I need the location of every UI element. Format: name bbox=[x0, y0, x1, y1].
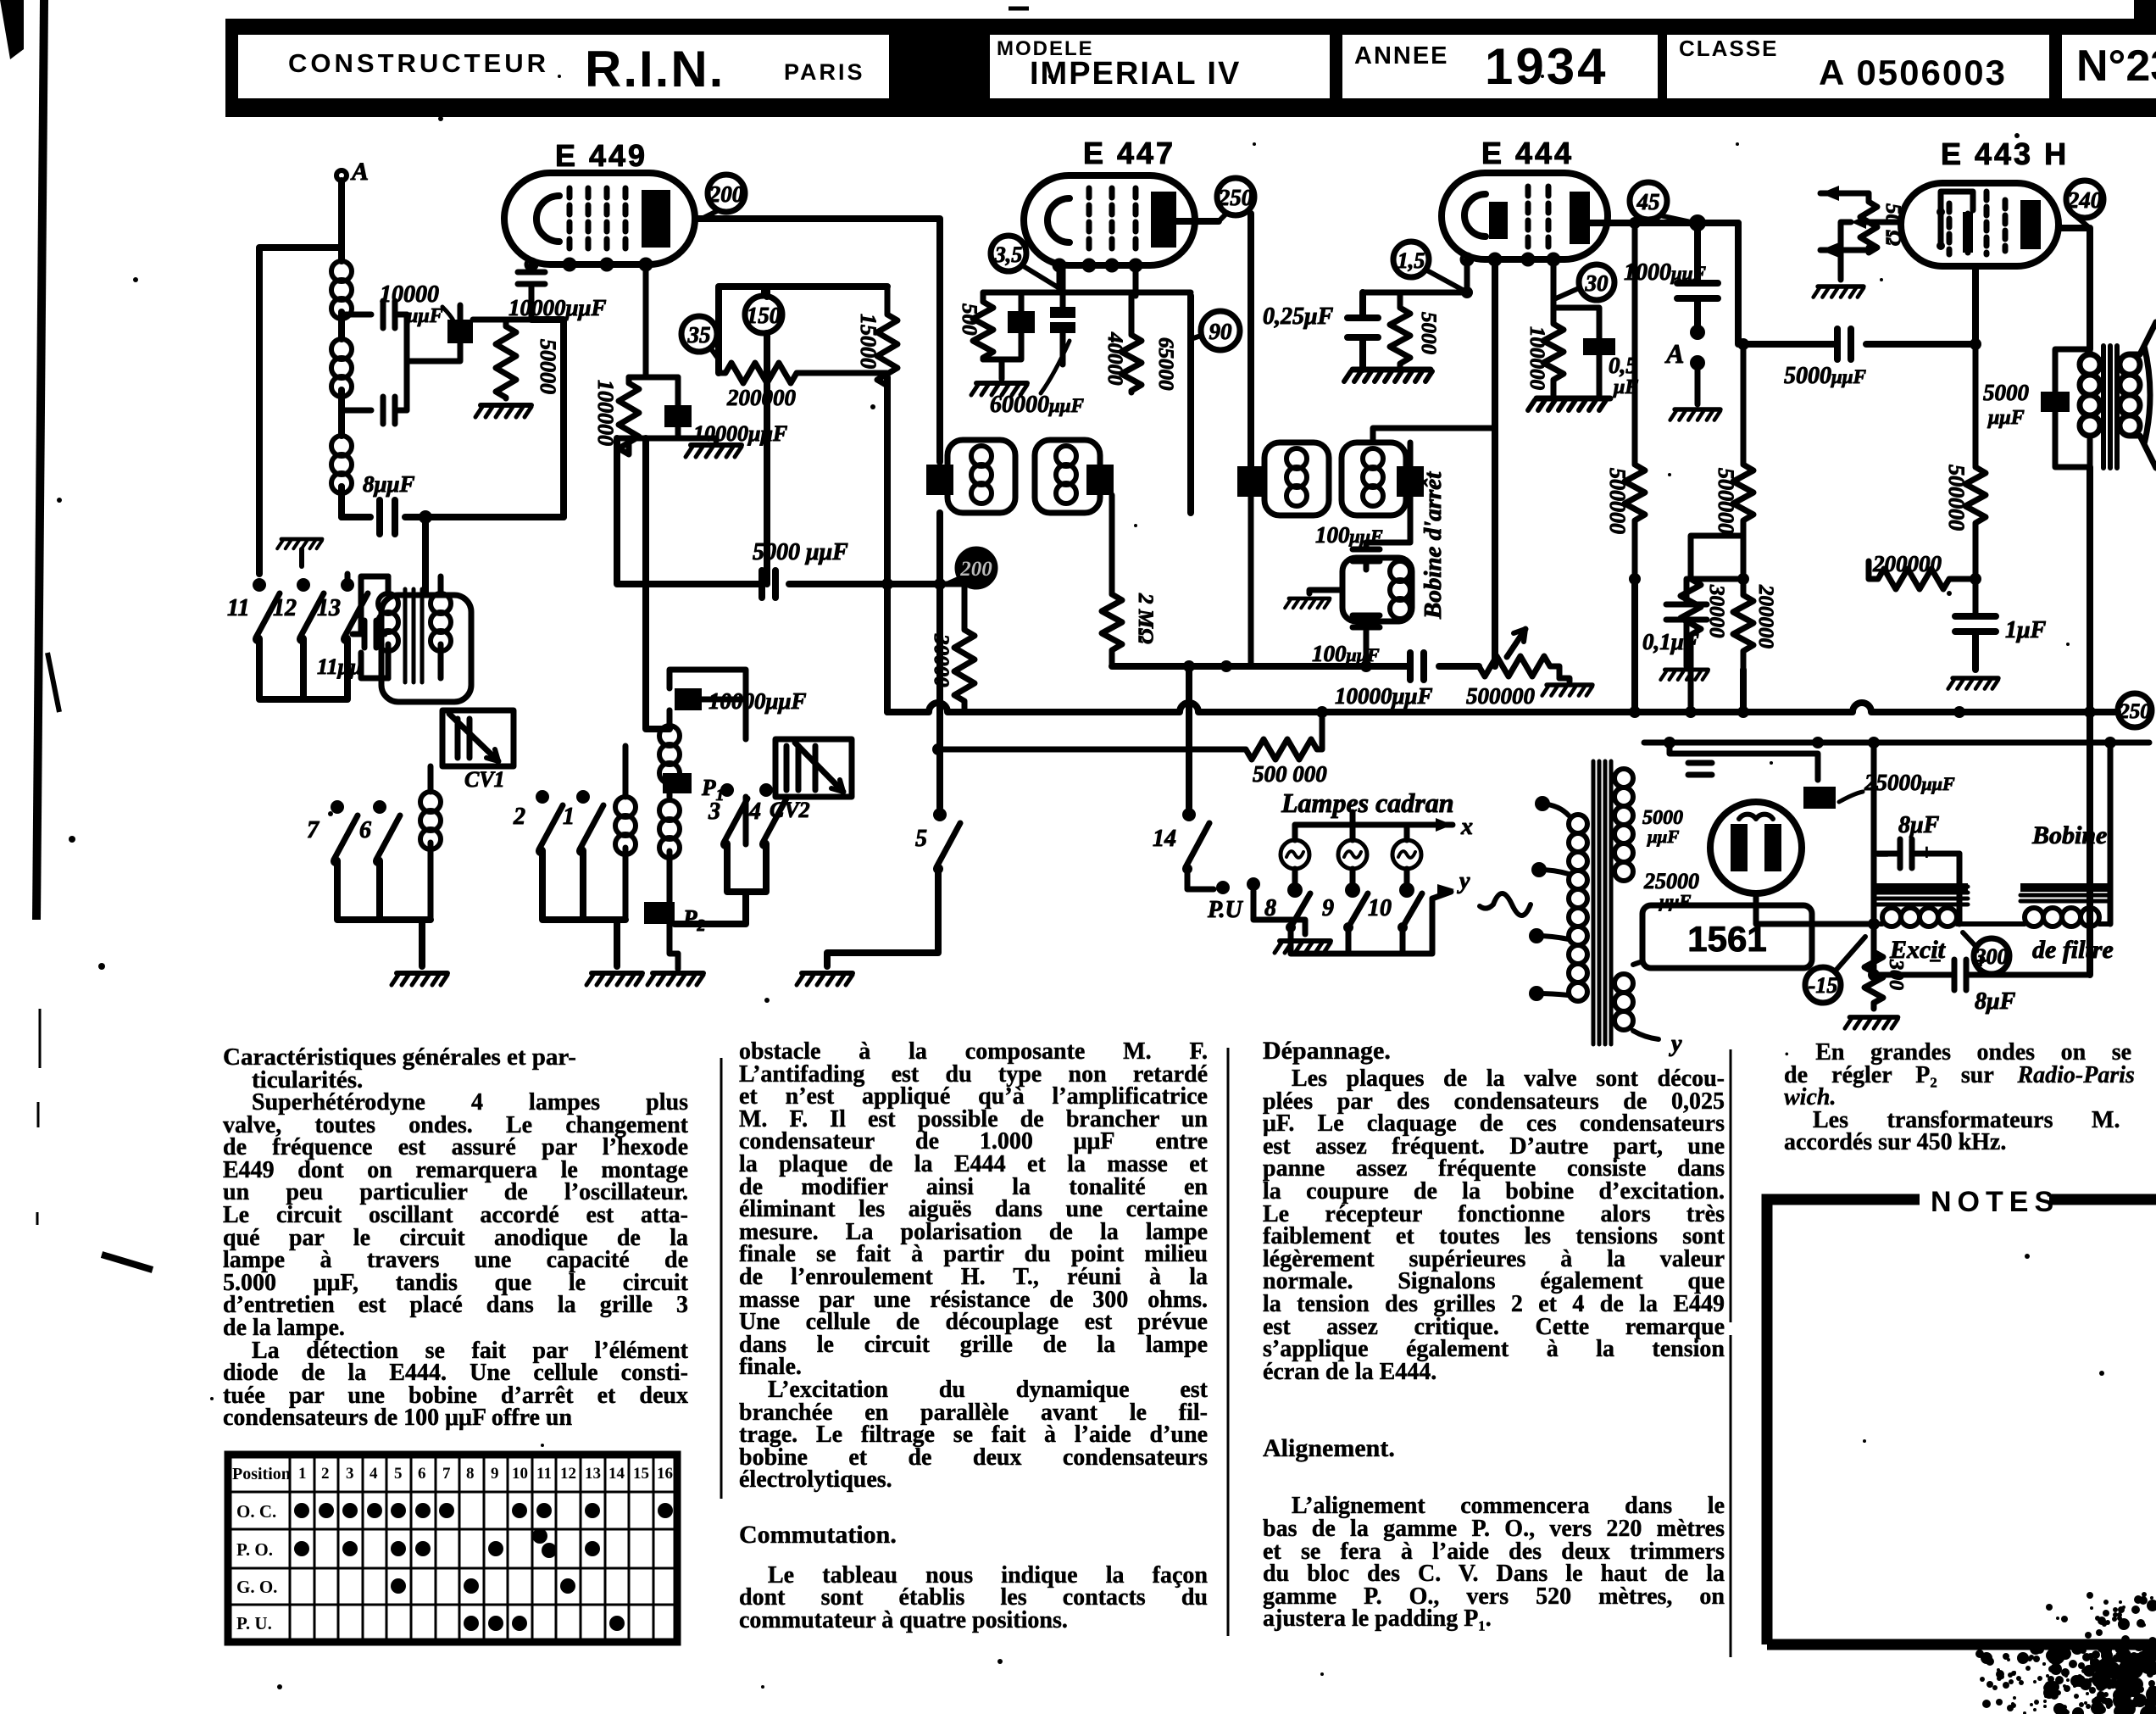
wire MF3 secondary to diode bbox=[1373, 428, 1495, 466]
label box 1561 bbox=[1642, 905, 1812, 968]
ground switches 1-2 bbox=[586, 973, 642, 985]
node 240 (E443H anode) bbox=[2066, 181, 2103, 228]
capacitor 100uuF lower bbox=[1312, 615, 1380, 666]
rectifier top loop bbox=[1670, 743, 1818, 780]
wire rectifier output bbox=[1756, 893, 1874, 924]
junction node bbox=[1868, 737, 1880, 748]
wire switches 11-13 bottom rail bbox=[259, 639, 347, 699]
switch 1 bbox=[563, 790, 603, 856]
switch 14 bbox=[1153, 666, 1209, 874]
primary taps bbox=[1529, 796, 1569, 1001]
valve circle bbox=[1710, 802, 1802, 893]
wire top-left frame bbox=[259, 248, 342, 574]
text column 3 bbox=[1263, 1039, 1725, 1631]
junction node bbox=[1970, 573, 1981, 585]
junction node bbox=[1868, 969, 1880, 981]
resistor 100000 screen E444 bbox=[1525, 259, 1564, 398]
text column 4 bbox=[1784, 1041, 2156, 1154]
resistor 500 bbox=[958, 292, 993, 359]
wire E447 90-drop bbox=[1187, 296, 1194, 513]
node 300 bbox=[1963, 932, 2009, 974]
wire E447 plate to MF3 bbox=[1176, 214, 1251, 468]
node 45 (E444 anode) bbox=[1630, 182, 1695, 223]
lamp 1 bbox=[1281, 825, 1309, 898]
transformer core bbox=[1593, 761, 1611, 1044]
wire bias junction to bus bbox=[1635, 579, 1743, 712]
oscillator grid coil L3 bbox=[420, 766, 441, 920]
wire 200000 to 15000 junction bbox=[803, 373, 887, 377]
wire filtre to B+ bbox=[2108, 743, 2114, 924]
wire transformer bottom down bbox=[2087, 467, 2093, 975]
capacitor 5000uuF rectifier bbox=[1642, 763, 1712, 847]
node 30 bbox=[1556, 264, 1614, 300]
capacitor MF1 primary blob bbox=[926, 465, 953, 495]
wire P2 to ground bbox=[670, 924, 678, 954]
trimmer P2 bbox=[644, 902, 706, 935]
resistor 50 ohm bbox=[1860, 193, 1904, 253]
bobine de filtre core bbox=[2020, 883, 2109, 901]
node 200 (E449 anode voltage) bbox=[702, 175, 745, 219]
ground bobine bbox=[1285, 598, 1330, 608]
wire MF3 primary cap down bbox=[1248, 497, 1254, 666]
wire PU bbox=[1187, 869, 1214, 889]
switch 5 bbox=[915, 808, 960, 874]
label 10000 uuF bbox=[380, 281, 454, 327]
ground A bbox=[1670, 409, 1720, 420]
ground volume pot bbox=[1542, 685, 1592, 696]
ground oscillator bbox=[647, 973, 703, 985]
column separator 1-2 bbox=[720, 1058, 723, 1499]
transformer core bbox=[2103, 346, 2117, 468]
junction node bbox=[1868, 918, 1880, 930]
ground grid leak bbox=[475, 405, 531, 417]
wire grid junction bbox=[473, 317, 531, 323]
resistor 2 Mohm bbox=[1102, 495, 1157, 666]
switch 12 bbox=[273, 578, 324, 644]
junction node bbox=[934, 578, 946, 590]
column separator 3-4 bbox=[1730, 1049, 1732, 1657]
switch 7 bbox=[307, 800, 358, 866]
header box constructeur bbox=[238, 35, 889, 98]
small floating ground bbox=[277, 539, 322, 566]
antenna terminal A bbox=[336, 158, 369, 186]
junction node bbox=[2104, 737, 2116, 748]
ground 1uF bbox=[1948, 678, 1998, 689]
junction node bbox=[1629, 573, 1641, 585]
header box modele bbox=[990, 35, 1330, 98]
capacitor 1uF bbox=[1955, 616, 2047, 670]
wire osc top rail bbox=[670, 670, 746, 844]
tube V4 E443H pentode bbox=[1901, 183, 2059, 266]
junction node bbox=[1183, 660, 1195, 672]
header outer black band bbox=[225, 19, 2156, 117]
wire tap link bbox=[404, 314, 410, 410]
wire plate rail E449 bbox=[695, 219, 940, 462]
antenna coil L1a bbox=[331, 248, 352, 339]
junction nodes on bus bbox=[1316, 706, 1965, 718]
PU terminals bbox=[1207, 877, 1305, 934]
wire 30000 resistor to bus (E444 screen feed) bbox=[1681, 536, 1743, 718]
capacitor MF3 secondary blob bbox=[1397, 466, 1424, 497]
excit core stripes bbox=[1876, 883, 1968, 904]
capacitor 10000uuF AVC bbox=[1335, 653, 1433, 709]
wire switch 3-4 rail bbox=[675, 844, 766, 924]
capacitor 0,1uF bbox=[1642, 579, 1743, 654]
wire switch 7-6 rail to ground bbox=[337, 861, 431, 966]
antenna coil L1b bbox=[331, 339, 352, 436]
switch 8 bbox=[1264, 893, 1310, 932]
resistor 200000 horizontal bbox=[1869, 551, 1975, 589]
ground E447 bias bbox=[971, 383, 1027, 395]
junction node bbox=[2084, 706, 2096, 718]
filament arrows bbox=[1820, 186, 1901, 258]
resistor 200000 horizontal bbox=[719, 363, 803, 410]
capacitor 0,5uF blob bbox=[1553, 308, 1638, 398]
wire coupling 45 to E443H bbox=[1738, 223, 1975, 344]
ground PU bbox=[1275, 941, 1331, 953]
switch 6 bbox=[359, 800, 400, 866]
junction node bbox=[1970, 338, 1981, 350]
terminal A jumper bbox=[1664, 325, 1705, 404]
junction node bbox=[881, 578, 893, 590]
switch 2 bbox=[513, 790, 563, 856]
lamp 3 bbox=[1392, 825, 1421, 898]
switch 10 bbox=[1368, 893, 1422, 932]
resistor 500000 grid leak E443H bbox=[1944, 344, 1986, 542]
lamp bottom rail + y arrow bbox=[1291, 868, 1470, 954]
lamp rail x bbox=[1295, 812, 1473, 840]
capacitor MF3 primary blob bbox=[1237, 466, 1264, 497]
capacitor 8uF top bbox=[1874, 812, 1959, 868]
mains wave symbol bbox=[1480, 893, 1531, 915]
capacitor 25000uuF blob bbox=[1803, 770, 1955, 809]
left page edge line bbox=[36, 0, 44, 920]
resistor 500000 AVC-2 bbox=[936, 716, 1327, 787]
screen rail wire bbox=[719, 287, 887, 373]
capacitor 60000uuF grid bbox=[1050, 265, 1075, 365]
wire antenna down bbox=[338, 181, 345, 248]
capacitor 5000uuF bbox=[753, 539, 848, 598]
resistor 15000 bbox=[856, 287, 897, 386]
resistor 30000 MF bbox=[930, 584, 975, 712]
resistor 500000 E444 load bbox=[1605, 223, 1645, 579]
header box numero bbox=[2062, 35, 2156, 98]
ground hum pot bbox=[1814, 287, 1864, 298]
wire MF1 to switch5 bbox=[936, 513, 943, 808]
header box annee bbox=[1342, 35, 1658, 98]
top right corner mark bbox=[2134, 0, 2156, 22]
resistor 50000 grid leak bbox=[496, 320, 560, 398]
wire 5000uuF line bbox=[617, 438, 940, 584]
wire excit verticals bbox=[1874, 743, 1959, 975]
antenna coil L1c bbox=[331, 436, 352, 509]
column separator 2-3 bbox=[1227, 1048, 1230, 1636]
HT secondary bbox=[1614, 769, 1633, 881]
header box classe bbox=[1667, 35, 2049, 98]
X Y arrows secondary bbox=[1633, 948, 1695, 1057]
junction node bbox=[1461, 287, 1473, 298]
wire switch5 to ground bbox=[827, 869, 938, 966]
tube V2 E447 bbox=[1024, 175, 1195, 270]
ground switch5 bbox=[797, 973, 853, 985]
label 60000uuF bbox=[990, 341, 1084, 418]
wire bobine ground stub bbox=[1309, 590, 1342, 593]
LT secondary bbox=[1614, 974, 1633, 1030]
wire screen drop long vertical bbox=[884, 377, 891, 712]
wire E444 cathode rail bbox=[1363, 259, 1467, 292]
wire grid3 E449 down bbox=[646, 438, 670, 729]
wire E447 cathode rail bbox=[983, 265, 1191, 292]
node 1,5 bbox=[1393, 242, 1463, 290]
capacitor tap upper bbox=[342, 301, 407, 328]
padding capacitor bbox=[353, 620, 385, 648]
node 150 bbox=[745, 288, 782, 333]
text column 2 bbox=[739, 1041, 1208, 1633]
wire MF3 right cap to choke bbox=[1366, 497, 1410, 666]
wire switch 1-2 rail bbox=[542, 851, 625, 966]
resistor 500000 grid E443H bbox=[1714, 344, 1753, 579]
junction nodes rectifier rail bbox=[1664, 737, 1824, 748]
node 200 dark (junction) bbox=[947, 549, 995, 587]
node 3,5 bbox=[991, 236, 1059, 288]
trimmer P1 bbox=[663, 773, 725, 804]
text column 1 bbox=[223, 1046, 688, 1430]
ground 300 bbox=[1845, 1017, 1898, 1028]
capacitor MF1 secondary blob bbox=[1086, 465, 1114, 495]
ground E444 cathode bbox=[1344, 370, 1432, 381]
wire E443H plate bbox=[2059, 228, 2090, 349]
node 250 bottom right bbox=[2118, 693, 2152, 727]
secondary + speaker bbox=[2120, 322, 2156, 468]
switch 9 bbox=[1322, 893, 1368, 932]
HT rail to rectifier bbox=[1644, 740, 2149, 746]
junction node bbox=[932, 743, 944, 755]
node -15 bbox=[1805, 937, 1865, 1003]
resistor 40000 grid2 bbox=[1103, 265, 1177, 392]
ground 0,1uF bbox=[1660, 670, 1708, 680]
tube V3 E444 bbox=[1442, 173, 1608, 264]
capacitor E447 bias blob bbox=[983, 292, 1035, 359]
capacitor 5000uuF coupling bbox=[1784, 329, 1866, 389]
excit winding bbox=[1874, 908, 1968, 927]
wire AVC y786 bbox=[1112, 663, 1479, 670]
output transformer primary bbox=[2080, 349, 2100, 467]
wire E444 diode drop bbox=[1492, 259, 1498, 666]
node 35 bbox=[681, 316, 719, 359]
wire osc anode cell bbox=[617, 264, 690, 438]
node 250 (E447 anode) bbox=[1217, 178, 1254, 221]
resistor 200000 bias bbox=[1733, 579, 1777, 670]
ground antenna block bbox=[392, 973, 447, 985]
switch 4 bbox=[748, 783, 786, 849]
trimmer 10000uuF blob bbox=[407, 305, 473, 361]
variable capacitor CV2 bbox=[770, 739, 852, 822]
bobine de filtre winding bbox=[1959, 908, 2110, 927]
junction node bbox=[1737, 338, 1749, 350]
junction node bbox=[1737, 573, 1749, 585]
primary windings bbox=[1569, 815, 1587, 1001]
capacitor 100uuF upper bbox=[1315, 522, 1383, 570]
capacitor 8uuF bbox=[342, 500, 564, 534]
wire band coil links bbox=[361, 576, 388, 678]
wire wiper to ground bbox=[1841, 222, 1851, 280]
potentiometer 500000 volume bbox=[1466, 629, 1559, 709]
switch 13 bbox=[317, 574, 368, 644]
osc capacitor 10000uuF blob bbox=[670, 688, 702, 729]
switch table bbox=[228, 1455, 677, 1642]
capacitor 5000uuF anode blob bbox=[1983, 349, 2090, 467]
junction node bbox=[1360, 660, 1372, 672]
header texts bbox=[288, 48, 549, 79]
switch 3 bbox=[708, 783, 747, 849]
osc coil L4a bbox=[659, 726, 680, 797]
capacitor 10000uuF grid series bbox=[518, 264, 545, 320]
resistor 5000 cathode bbox=[1390, 292, 1440, 370]
junction node bbox=[1629, 217, 1641, 229]
lamp 2 bbox=[1338, 825, 1367, 898]
osc coil L4b bbox=[659, 800, 680, 902]
variable capacitor CV1 bbox=[442, 710, 514, 792]
capacitor 1000uuF bbox=[1624, 229, 1718, 326]
wire feedback riser bbox=[342, 320, 564, 593]
NOTES box bbox=[1767, 1186, 2156, 1665]
capacitor 10000uuF osc blob bbox=[664, 377, 692, 438]
wire E444 plate out bbox=[1590, 220, 1738, 226]
capacitor tap lower bbox=[342, 397, 407, 424]
resistor 100000 (osc anode) bbox=[593, 377, 639, 454]
junction node bbox=[1220, 660, 1232, 672]
ground E444 screen bbox=[1528, 398, 1610, 410]
switch 11 bbox=[227, 578, 280, 644]
node 90 bbox=[1191, 311, 1240, 350]
capacitor 8uF bottom bbox=[1874, 949, 2090, 1015]
capacitor 0,25uF cathode bbox=[1263, 292, 1378, 370]
resistor 300 bias bbox=[1864, 945, 1907, 1009]
band coil with core L2 bbox=[378, 576, 451, 682]
tube V1 E449 hexode bbox=[504, 173, 695, 270]
osc coupling coil L5 bbox=[615, 746, 636, 920]
ground osc anode cell bbox=[686, 445, 742, 457]
wire 150 feeder bbox=[764, 287, 770, 584]
junction node open bbox=[1692, 217, 1703, 229]
